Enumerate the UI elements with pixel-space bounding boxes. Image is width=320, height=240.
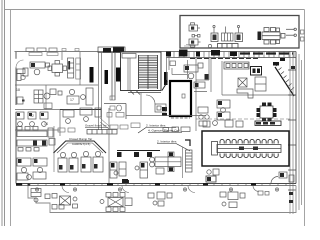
dark marks near diagonal top	[273, 58, 285, 66]
conference chairs bottom row	[220, 154, 278, 158]
rooftop small circle mark	[208, 44, 211, 47]
top-left cabinets on wall	[29, 53, 58, 56]
rooftop dumbbell item	[192, 35, 200, 38]
tall table	[255, 77, 266, 91]
cabinets row above pod	[163, 127, 190, 132]
terrace table west	[31, 189, 41, 203]
L-desk room walls	[196, 58, 209, 80]
door swing right of stair	[162, 82, 168, 91]
desk cluster x216	[217, 100, 230, 120]
workstation pod	[150, 152, 181, 174]
south wall ticks	[22, 184, 286, 186]
shelf column 2	[76, 58, 81, 79]
bottom-right corner cluster	[271, 172, 294, 184]
rooftop plant stands	[213, 25, 240, 33]
dark bits above south wall mid-left	[122, 180, 129, 184]
stairwell enclosure	[121, 52, 162, 91]
left office row 2	[17, 140, 47, 151]
rooftop side chair dark	[258, 32, 262, 41]
diagonal wall hatched	[275, 67, 294, 96]
mid desk group G1	[110, 162, 148, 178]
marks outside right of rooftop room	[301, 30, 305, 41]
parapet planters above edge	[26, 48, 57, 52]
terrace group 4	[220, 192, 245, 208]
south wall dark segments	[16, 183, 256, 186]
room 11 box	[49, 139, 55, 146]
square table w cross	[238, 78, 247, 87]
rooftop bottom striped table	[218, 44, 239, 49]
wall right of pod	[182, 147, 184, 178]
top edge left line	[15, 51, 167, 53]
stair treads	[139, 56, 158, 88]
left wall L-desk	[17, 69, 25, 81]
left office row 4	[17, 172, 46, 180]
desk right of shaft	[194, 82, 207, 92]
interior walls upper-left block	[15, 52, 102, 136]
dining table with chairs	[260, 106, 273, 118]
corridor small marks	[107, 113, 140, 130]
rooftop desk 2	[189, 39, 201, 47]
rooftop desk 1	[189, 23, 200, 31]
left office row 3 workstations	[17, 158, 47, 173]
L-sofa	[237, 89, 253, 98]
svg-text:2. Interior tiles: 2. Interior tiles	[157, 140, 177, 144]
svg-text:4. Gypsum Plaster Ceil.: 4. Gypsum Plaster Ceil.	[148, 129, 181, 133]
elevator shaft thick rect	[170, 81, 191, 116]
small marks left of hump	[58, 128, 75, 132]
band dashed darker line	[190, 58, 258, 60]
annotation texts right	[146, 124, 181, 133]
conference chairs top row	[220, 139, 278, 143]
dark blobs left of shaft	[162, 107, 167, 116]
table boxes	[239, 147, 258, 151]
column black bar A	[90, 67, 94, 83]
room right of band: L-desk	[184, 63, 203, 79]
terrace boundary	[28, 186, 296, 213]
ramp hump	[54, 141, 107, 153]
building outer walls	[16, 52, 296, 184]
middle room walls	[211, 58, 296, 95]
dark cabinet row top right	[255, 121, 281, 126]
mid annotation 3	[157, 140, 190, 152]
svg-text:Gravel finish Tar: Gravel finish Tar	[85, 124, 107, 128]
rooftop chair B	[235, 33, 243, 42]
hump labels	[69, 137, 92, 146]
terrace group 1	[45, 194, 78, 210]
small tables left-of dining	[198, 107, 209, 126]
column black bar C	[105, 70, 109, 84]
shaft door marks	[182, 94, 185, 98]
cabinets above conference room	[203, 120, 243, 127]
room18 shelf grid	[34, 90, 43, 103]
entrance canopy dark cluster	[103, 47, 124, 53]
conference table	[212, 142, 282, 156]
band mullion ticks	[169, 52, 294, 58]
corridor wall mid	[109, 92, 206, 183]
tiny vents above edge	[62, 49, 79, 52]
dashes below shaft	[171, 117, 190, 119]
svg-text:Closed Ramp Tar: Closed Ramp Tar	[69, 137, 92, 141]
ladder shelf	[186, 150, 193, 172]
right wall dimension lines	[290, 52, 302, 215]
band dark segments	[166, 50, 237, 57]
room17 desk	[67, 88, 93, 105]
left office row 1	[17, 127, 53, 138]
svg-text:CARPET(4.5): CARPET(4.5)	[72, 142, 90, 146]
rooftop conference table	[262, 28, 296, 45]
column black bar B (left of stair)	[116, 68, 121, 82]
conference room walls	[202, 131, 289, 166]
shelf column	[68, 58, 74, 78]
desk above south wall mid	[206, 176, 216, 182]
wc fixtures	[110, 96, 122, 111]
door arc mid	[146, 95, 155, 104]
corridor wall right of stair	[167, 58, 176, 80]
room 14 desks	[16, 112, 48, 126]
4-seat table	[48, 61, 67, 77]
marks below conference room	[206, 169, 219, 182]
left edge double line	[2, 0, 5, 226]
rooftop striped table	[222, 33, 234, 41]
rooftop room outline	[180, 16, 299, 49]
band dark dashed stripe	[240, 52, 293, 54]
wall left of stair	[104, 52, 126, 119]
door swings on south wall	[62, 186, 259, 193]
dark wall segment y110	[60, 109, 101, 111]
small dark wall ticks west	[22, 100, 30, 187]
upper-left L-desk	[23, 62, 50, 76]
svg-text:18: 18	[16, 88, 20, 92]
leader diagonals	[100, 118, 109, 129]
dimension text above band	[184, 45, 196, 47]
walls above shaft	[172, 58, 196, 131]
dashed line above conference	[196, 118, 290, 120]
vertical wall x54	[53, 126, 55, 172]
svg-text:2. Interior tiles: 2. Interior tiles	[146, 124, 166, 128]
top window band (right half)	[166, 52, 296, 58]
dark stove box	[251, 67, 262, 76]
sink unit	[155, 104, 166, 112]
kitchen counter row	[224, 62, 249, 69]
terrace group 2	[100, 193, 132, 212]
room18 desk+chair	[17, 89, 62, 104]
mid-left room desks	[63, 108, 101, 123]
lower-left big workstations	[58, 151, 103, 172]
svg-text:17: 17	[70, 98, 74, 102]
west door swing	[16, 60, 24, 68]
dark L bracket	[185, 140, 190, 146]
rooftop chair A	[211, 33, 218, 42]
column bar right of stair	[164, 72, 168, 85]
terrace group 5 small	[258, 191, 269, 195]
marks below stair	[128, 91, 161, 95]
south wall double line	[16, 185, 296, 187]
terrace group 3	[148, 192, 172, 206]
dark line below hump	[117, 150, 160, 152]
counter below text	[87, 130, 117, 135]
column circles below south wall	[35, 188, 278, 191]
left annotation text	[85, 124, 108, 128]
mid dark chair bars under line	[117, 152, 152, 157]
room numbers	[16, 88, 74, 126]
